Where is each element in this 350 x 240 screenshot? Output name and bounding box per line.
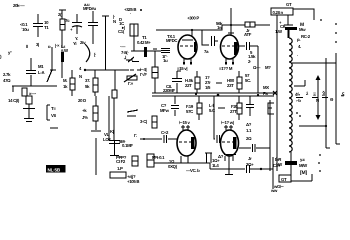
bottom black cap	[285, 161, 297, 165]
wire grid bus	[84, 69, 141, 71]
svg-text:M?: M?	[265, 65, 271, 70]
arrowheads meter line	[316, 75, 321, 120]
svg-text:0.28 n: 0.28 n	[273, 10, 284, 15]
label R3 value	[63, 78, 68, 89]
wire	[61, 62, 63, 78]
trimmer marks	[127, 110, 138, 116]
svg-text:Γ.: Γ.	[134, 133, 137, 138]
wire input bus	[12, 86, 57, 92]
svg-text:L·: L·	[276, 156, 279, 161]
label K	[110, 129, 114, 134]
resistor R5 horizontal	[245, 22, 255, 27]
grid line to tube3	[140, 135, 177, 143]
label 20D	[78, 98, 86, 103]
svg-text:+105 B: +105 B	[127, 179, 139, 184]
svg-text:1L4: 1L4	[212, 163, 219, 168]
tube V3	[177, 130, 196, 156]
label 14C input	[8, 98, 20, 103]
left bracket to rail	[172, 71, 182, 93]
electrolytic bar on line	[144, 47, 147, 57]
svg-text:3|: 3|	[36, 42, 39, 47]
labels flat box	[117, 166, 136, 179]
svg-text:+300 P: +300 P	[187, 16, 199, 21]
marks small	[0, 50, 12, 59]
svg-text:3·C|: 3·C|	[140, 119, 147, 124]
svg-text:N: N	[113, 19, 116, 24]
resistor double box	[147, 154, 154, 167]
wire V2 plate right	[238, 42, 258, 93]
label +300 V	[187, 16, 199, 21]
svg-text:22T: 22T	[185, 83, 192, 88]
svg-text:Γ√F: Γ√F	[140, 72, 147, 77]
switch marks	[128, 57, 139, 62]
label 7a	[204, 49, 209, 54]
resistor R4	[94, 70, 96, 96]
svg-text:RC-2: RC-2	[301, 34, 311, 39]
secondary verticals	[336, 53, 340, 144]
triple stack cap	[161, 49, 170, 53]
junction tube2 plate	[230, 24, 232, 26]
capacitor C6	[171, 96, 179, 116]
svg-text:Ν: Ν	[316, 98, 319, 103]
svg-text:MX: MX	[263, 85, 269, 90]
label a.u / MFD	[83, 2, 96, 11]
feedback bracket	[268, 103, 274, 114]
dashed lead	[126, 59, 133, 61]
svg-text:2·: 2·	[248, 59, 251, 64]
svg-text:ATF: ATF	[244, 32, 252, 37]
svg-text:20 D: 20 D	[78, 98, 86, 103]
svg-text:L-A: L-A	[38, 70, 44, 75]
pot arrow	[127, 76, 137, 80]
svg-text:Yi: Yi	[73, 41, 76, 46]
label 10k / TL	[44, 20, 49, 30]
wire tube1 top lead	[191, 30, 193, 36]
label bracket	[94, 52, 96, 57]
wire top bracket	[293, 9, 314, 20]
svg-text:`10u: `10u	[21, 27, 29, 32]
svg-text:⊢1? w|: ⊢1? w|	[221, 120, 234, 125]
label node	[218, 154, 224, 159]
terminal underlines	[296, 97, 328, 99]
resistor box C	[132, 156, 138, 166]
label 0.1MF bus	[152, 155, 165, 160]
box component left-mid	[152, 116, 157, 128]
labels right of cap	[299, 157, 308, 176]
resistor R11	[238, 96, 240, 120]
svg-text:0.42 M+: 0.42 M+	[137, 40, 151, 45]
svg-text:Mw: Mw	[299, 27, 306, 32]
svg-text:0.1MF: 0.1MF	[122, 143, 133, 148]
capacitor C4	[26, 58, 36, 86]
svg-text:LO2: LO2	[103, 137, 111, 142]
electrolytic C2	[72, 14, 82, 34]
svg-text:[·: [·	[94, 52, 96, 57]
tube V3 bottom leads	[181, 156, 188, 163]
svg-text:x—·: x—·	[29, 91, 36, 96]
tube V3 anode bar	[191, 137, 195, 149]
svg-text:⌐b: ⌐b	[296, 98, 301, 103]
tube V4 grid dashes	[222, 141, 235, 143]
tube V1 plate	[182, 39, 193, 41]
tube V1	[178, 35, 197, 59]
label VL LO2	[103, 132, 111, 142]
label 56k node	[216, 21, 223, 30]
svg-text:27T: 27T	[230, 109, 237, 114]
svg-text:Γ.×: Γ.×	[128, 81, 134, 86]
black bar component	[61, 52, 64, 62]
svg-text:57C: 57C	[186, 109, 193, 114]
label M RC	[299, 22, 311, 39]
label +325 V	[124, 7, 136, 16]
tube V4 anode bar	[233, 137, 237, 149]
resistor R8	[196, 71, 198, 93]
svg-text:CI F2: CI F2	[116, 159, 126, 164]
junction grid line	[143, 138, 145, 140]
coupling into V4	[214, 96, 221, 143]
dots bottom right	[319, 154, 321, 156]
svg-text:Δ?: Δ?	[246, 122, 252, 127]
label R7 value	[82, 108, 88, 120]
labels near ground	[116, 139, 133, 164]
junction bus	[260, 168, 262, 170]
svg-text:T=: T=	[51, 106, 56, 111]
label under V3	[168, 159, 178, 169]
svg-text:.: .	[297, 52, 298, 57]
misc marks bottom of top-left	[26, 42, 60, 49]
cathode ground symbol	[224, 155, 236, 175]
labels -15v above bottom tubes	[179, 120, 191, 125]
label 0.28 value	[273, 10, 284, 15]
svg-text:MFDC: MFDC	[166, 38, 177, 43]
svg-text:N: N	[79, 74, 82, 79]
labels left of cap	[273, 157, 282, 168]
tube V3 grid dashes	[179, 141, 192, 143]
wire plate bus top	[156, 25, 270, 30]
secondary tap y63	[292, 62, 336, 64]
label output cap	[246, 156, 254, 167]
bottom GT box	[279, 175, 291, 182]
secondary bottom tap	[299, 125, 326, 127]
svg-text:NL·5B: NL·5B	[48, 167, 61, 172]
labels	[209, 103, 215, 113]
label marks	[113, 14, 116, 24]
label +105 V	[127, 179, 139, 184]
label plus	[279, 20, 286, 29]
label box top	[271, 8, 293, 15]
labels D 1C	[118, 17, 125, 34]
output coupling cap	[239, 144, 270, 152]
label 220	[140, 67, 147, 77]
label M1	[38, 64, 44, 75]
labels coupling network	[248, 29, 283, 64]
svg-text:ll: ll	[26, 44, 28, 49]
svg-text:5C.: 5C.	[245, 78, 251, 83]
label -15v under V2	[219, 65, 271, 71]
svg-text:p.: p.	[297, 37, 300, 42]
svg-text:·: ·	[130, 11, 131, 16]
svg-text:M.: M.	[63, 78, 67, 83]
primary left wire	[276, 15, 278, 171]
svg-text:3Ω+: 3Ω+	[246, 162, 254, 167]
label R2	[29, 91, 36, 96]
label 0.1 / 10u	[20, 22, 29, 32]
svg-text:0XQ(: 0XQ(	[168, 164, 178, 169]
label 3C	[140, 119, 147, 124]
junction	[84, 69, 86, 71]
wire choke lead and node	[134, 36, 157, 67]
grid leads into bottom tubes	[181, 125, 190, 130]
svg-text:Ch: Ch	[280, 24, 286, 29]
junction rail	[217, 94, 220, 97]
label gamma	[134, 133, 137, 138]
svg-text:⊢15 v: ⊢15 v	[179, 120, 191, 125]
wire tube2 top lead	[228, 8, 234, 35]
flat box bottom-left	[110, 172, 126, 178]
svg-text:23T: 23T	[227, 83, 234, 88]
svg-text:C1(: C1(	[118, 29, 125, 34]
resistor R3	[70, 78, 75, 90]
resistor R12	[152, 67, 158, 78]
input loop arc	[85, 44, 90, 62]
svg-text:MFw: MFw	[160, 108, 170, 113]
label MX Fa	[263, 85, 269, 96]
label node	[48, 44, 51, 49]
wire rail upper	[152, 92, 274, 94]
resistor R6	[112, 90, 117, 98]
labels middle	[205, 75, 211, 90]
wire long down	[108, 96, 110, 140]
capacitor C7	[246, 96, 254, 116]
svg-text:[M]: [M]	[300, 170, 307, 176]
terminal labels row2	[296, 97, 334, 103]
svg-text:ww: ww	[270, 188, 278, 192]
cap to ground chain	[109, 98, 120, 156]
bracket connector	[47, 105, 50, 120]
resistor R10	[198, 96, 200, 120]
dots right of M	[320, 19, 322, 21]
svg-text:Ѯ: Ѯ	[322, 90, 325, 97]
svg-text:J%: J%	[82, 115, 88, 120]
svg-text:220MF: 220MF	[163, 88, 176, 93]
label 20k top-left	[13, 3, 25, 8]
svg-text:-7c: -7c	[64, 18, 70, 23]
svg-text:37.: 37.	[85, 78, 90, 83]
capacitor C3	[88, 11, 98, 44]
svg-text:47Ω: 47Ω	[3, 78, 11, 83]
svg-text:=15 v|: =15 v|	[177, 66, 187, 71]
tube V2 anode bar	[234, 42, 238, 55]
secondary stub	[294, 80, 305, 86]
dash mark	[218, 107, 225, 109]
svg-text:Ω—: Ω—	[253, 65, 261, 70]
svg-text:2.7k: 2.7k	[3, 72, 11, 77]
svg-text:M1: M1	[38, 64, 44, 69]
bottom right bracket wires	[272, 157, 274, 189]
primary coil winding	[289, 38, 292, 152]
svg-text:2Ω: 2Ω	[246, 136, 252, 141]
label 0.1 MFD near tube1	[166, 34, 177, 43]
resistor R2	[22, 88, 27, 96]
label -15v under V1	[177, 66, 187, 71]
resistor R1 vertical	[60, 19, 65, 30]
tube V1 anode bar	[194, 42, 196, 52]
labels beside coil	[297, 37, 301, 57]
wire vertical long	[102, 16, 109, 70]
wire stub dash	[50, 127, 58, 129]
label T1 / 0.42MF	[120, 35, 151, 49]
tube V4 bottom leads	[225, 156, 233, 161]
svg-text:14 C(I): 14 C(I)	[8, 98, 20, 103]
pronged component on bus	[205, 153, 212, 163]
tube V2 cathode leads	[226, 59, 233, 65]
svg-text:=1?? M: =1?? M	[219, 66, 233, 71]
capacitor C1 input	[33, 14, 43, 37]
dash mark	[216, 82, 222, 84]
wire rail lower	[152, 95, 274, 97]
svg-text:C+2: C+2	[161, 130, 169, 135]
label R4 value	[85, 78, 90, 89]
resistor R7 right of R4	[95, 96, 97, 106]
labels Le #W	[58, 12, 69, 53]
transformer bottom wire	[290, 152, 292, 176]
label C2 coupling	[161, 130, 169, 135]
svg-text:GT: GT	[281, 177, 287, 182]
series capacitor on bus	[247, 165, 250, 173]
svg-text:GT: GT	[286, 2, 292, 7]
coupling cap C5 between tubes	[202, 30, 218, 46]
label -VG b	[186, 168, 200, 173]
svg-text:1.P: 1.P	[117, 166, 123, 171]
svg-text:M/W: M/W	[299, 163, 308, 168]
label GT	[286, 2, 292, 7]
tube V4	[221, 130, 239, 156]
junction secondary	[325, 125, 327, 127]
label 2.7k 47	[3, 72, 11, 83]
rail end X mark	[273, 91, 277, 95]
wire vertical left	[47, 47, 56, 82]
resistor R9	[238, 71, 240, 93]
dots secondary	[296, 112, 298, 114]
top cap electrolytic	[284, 15, 293, 38]
label pot	[128, 81, 134, 86]
terminal labels	[295, 90, 345, 98]
label cathode R	[212, 158, 220, 168]
label R5 value	[244, 28, 252, 37]
svg-text:1u: 1u	[163, 58, 168, 63]
wire stub	[95, 138, 97, 175]
wire bottom bus	[154, 163, 273, 169]
tube V2 grid dashes	[222, 45, 235, 47]
small box	[26, 96, 32, 104]
labels C7 values	[246, 122, 252, 141]
tube V1 grid dashes	[180, 45, 193, 47]
svg-text:MFD#u: MFD#u	[83, 6, 96, 11]
junction dot	[140, 9, 142, 11]
svg-text:—VC. b: —VC. b	[186, 168, 200, 173]
tube V1 cathode leads	[184, 59, 191, 65]
svg-text:20k·—: 20k·—	[13, 3, 25, 8]
junction tube1 plate	[191, 29, 193, 31]
choke L1 box	[130, 24, 138, 36]
tube V2	[221, 35, 239, 59]
wire down to R6	[114, 70, 116, 90]
svg-text:4.: 4.	[298, 44, 301, 49]
svg-text:y°: y°	[8, 50, 12, 55]
